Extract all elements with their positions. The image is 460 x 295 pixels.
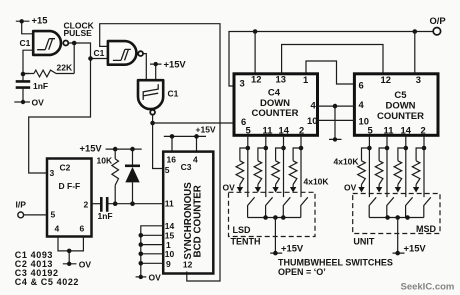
svg-text:3: 3 [50,168,55,178]
svg-text:14: 14 [401,125,412,136]
svg-text:COUNTER: COUNTER [377,111,424,122]
ground arrow (LSD1) [237,187,243,193]
svg-text:LSD: LSD [233,225,252,235]
svg-text:14: 14 [165,221,175,231]
svg-text:+15V: +15V [80,143,103,154]
svg-text:OV: OV [149,273,162,283]
wire : MSD pin line 2 [386,136,388,198]
svg-text:C1: C1 [168,89,179,99]
svg-text:1: 1 [303,74,308,85]
svg-text:12: 12 [183,260,193,270]
resistor 10K (LSD4) [289,148,301,187]
resistor 10K (MSD4) [412,148,424,187]
svg-text:3: 3 [416,74,421,85]
dashed box LSD thumbwheel [229,192,316,236]
svg-text:C4 & C5 4022: C4 & C5 4022 [15,277,79,287]
switch SLSD4 [301,197,308,217]
wire : LSD pin line 2 [265,136,267,198]
terminal O/P output [430,15,446,35]
label CLOCK PULSE [64,21,95,39]
svg-text:3: 3 [240,78,245,89]
svg-text:C2: C2 [60,163,71,173]
svg-text:OV: OV [223,183,236,193]
ground arrow (MSD3) [395,187,401,193]
svg-text:D F-F: D F-F [59,181,81,191]
svg-text:16: 16 [167,155,177,165]
op-amp U3 : Schmitt gate C1c pointing down [138,80,179,115]
capacitor C2 1nF (pin 2) [92,197,164,221]
ground 0V (oscillator) [14,98,44,108]
+15V terminal (MSD common) [393,218,405,254]
resistor 10K (LSD3) [272,148,284,187]
wire : C4 pin 1 to C5 pin 6 [306,61,355,84]
diode D1 [125,149,140,204]
+15V terminal (LSD common) [270,218,282,254]
wire : rail to C5 pin 3 [414,32,416,75]
svg-text:COUNTER: COUNTER [252,108,299,119]
switch SMSD4 [424,197,431,217]
svg-text:THUMBWHEEL SWITCHES: THUMBWHEEL SWITCHES [278,258,393,268]
wire : C4 pin 4 to C5 pin 4 [318,105,355,107]
label parts list [15,250,79,287]
+15V supply rail (10K and diode) [80,143,142,154]
svg-text:C1: C1 [20,38,31,48]
svg-text:I/P: I/P [16,200,27,210]
capacitor C1 1nF [16,81,48,102]
wire : LSD pin line 3 [283,136,285,198]
resistor R1 22K [23,63,74,77]
svg-text:+15V: +15V [281,243,304,254]
node C : RC junction [21,72,26,77]
wire : C3 reset pins 14,15,1,10,9 tied [141,226,164,277]
resistor 10K (MSD1) [358,148,370,187]
wire : long clock rail NAND2 input to C3 pin 12 [100,24,220,281]
svg-text:2: 2 [421,125,426,136]
counter C5 [354,74,438,136]
svg-text:TENTH: TENTH [231,237,261,247]
node F : pin4 tie terminal [329,104,342,142]
node D : clock distribution junction [150,121,155,126]
wire : rail to C4 pin 12 [254,32,256,75]
svg-text:DOWN: DOWN [385,101,415,112]
resistor 10K (LSD2) [254,148,266,187]
svg-text:12: 12 [381,74,391,85]
switch SLSD3 [283,197,290,217]
node E : monostable RC node [113,201,118,206]
svg-text:4x10K: 4x10K [304,177,330,187]
svg-text:15: 15 [165,231,175,241]
resistor R2 10K [97,149,119,204]
ground arrow (MSD1) [358,187,364,193]
svg-text:OV: OV [79,260,92,270]
svg-text:5: 5 [51,210,56,220]
wire : clock to C3 pin 5 [153,123,164,169]
svg-text:DOWN: DOWN [260,98,290,109]
svg-text:10K: 10K [97,156,113,166]
svg-text:5: 5 [165,165,170,175]
wire : LSD pin line 4 [300,136,302,198]
wire : gate3 output node [152,115,154,123]
wire : LSD pin line 1 [247,136,249,198]
svg-text:+15V: +15V [164,59,187,70]
ground arrow (LSD2) [255,187,261,193]
wire : NAND1 lower input / RC node [23,50,34,81]
svg-text:BCD COUNTER: BCD COUNTER [193,185,204,257]
wire : C4 pin 10 to C5 pin 10 [318,119,355,121]
D flip-flop C2 [47,159,92,237]
ground arrow (LSD4) [290,187,296,193]
svg-text:6: 6 [80,224,85,234]
resistor 10K (MSD2) [375,148,387,187]
switch SMSD3 [406,197,413,217]
svg-text:MSD: MSD [416,224,437,234]
wire : MSD pin line 1 [368,136,370,198]
resistor 10K (MSD3) [394,148,406,187]
svg-text:C3: C3 [181,162,192,172]
dashed box MSD thumbwheel [353,194,440,234]
svg-text:9: 9 [166,259,171,269]
svg-text:PULSE: PULSE [64,28,93,38]
switch SLSD2 [266,197,273,217]
switch SLSD1 [248,197,255,217]
svg-text:11: 11 [263,125,273,136]
svg-text:5: 5 [246,125,251,136]
op-amp U1 : Schmitt NAND gate C1a [20,31,69,55]
+15V terminal (gate3 input) [150,59,186,81]
wire : C4 pin 13 to C5 pin 12 [282,45,383,75]
terminal I/P input [16,200,48,218]
svg-text:C1: C1 [94,48,105,58]
wire : clock to C4 pin 6 [153,122,235,124]
+15V supply (C3 pins 16,4) [164,124,216,152]
svg-text:+15V: +15V [404,243,427,254]
svg-text:12: 12 [251,74,261,85]
ground arrow (MSD2) [376,187,382,193]
svg-text:22K: 22K [57,63,73,73]
wire : NAND2 input node to C2 pin 3 [29,59,91,174]
counter C3 [163,152,213,274]
op-amp U2 : Schmitt NAND gate C1b [94,41,144,65]
ground arrow (MSD4) [413,187,419,193]
svg-text:OV: OV [32,98,45,108]
svg-text:14: 14 [279,125,290,136]
node B : NAND2 input junction [88,56,93,61]
wire : LSD switch common bus [248,217,301,219]
svg-text:11: 11 [384,125,394,136]
svg-text:4: 4 [311,100,317,111]
wire : NAND2 output to gate3 input [143,54,146,81]
wire : MSD switch common bus [369,217,424,219]
wire : MSD pin line 3 [405,136,407,198]
svg-text:C5: C5 [394,90,407,101]
svg-text:+15V: +15V [196,124,216,134]
svg-text:10: 10 [307,115,317,126]
switch SMSD2 [387,197,394,217]
node A : clock pulse junction [72,41,77,46]
svg-text:4: 4 [193,155,198,165]
svg-text:OPEN = ‘O’: OPEN = ‘O’ [278,267,326,277]
ground 0V (C3 resets) [136,273,162,283]
resistor 10K (LSD1) [236,148,248,187]
svg-text:11: 11 [165,199,174,209]
wire : MSD pin line 4 [423,136,425,198]
+15 supply terminal [16,15,48,34]
counter C4 [234,74,318,136]
svg-text:6: 6 [359,80,364,91]
svg-text:2: 2 [299,125,304,136]
ground 0V (C2 pins 4,6) [58,237,91,270]
svg-text:+15: +15 [32,15,48,26]
svg-text:1nF: 1nF [33,81,48,91]
ground arrow (LSD3) [272,187,278,193]
svg-text:13: 13 [276,74,286,85]
wire : output rail to O/P [229,32,433,87]
wire : NAND1 output node to NAND2 input [68,43,108,59]
svg-text:5: 5 [368,125,373,136]
svg-text:4x10K: 4x10K [334,157,360,167]
switch SMSD1 [369,197,376,217]
svg-text:UNIT: UNIT [353,237,374,247]
wire : feedback output down to 22K [73,43,75,74]
svg-text:4: 4 [55,224,60,234]
svg-text:2: 2 [84,200,89,210]
svg-text:SeekIC.com: SeekIC.com [401,282,455,293]
svg-text:4: 4 [359,99,365,110]
label THUMBWHEEL SWITCHES [278,258,393,278]
svg-text:10: 10 [165,249,175,259]
svg-text:1nF: 1nF [98,211,113,221]
svg-text:OV: OV [344,183,357,193]
svg-text:O/P: O/P [430,15,446,26]
